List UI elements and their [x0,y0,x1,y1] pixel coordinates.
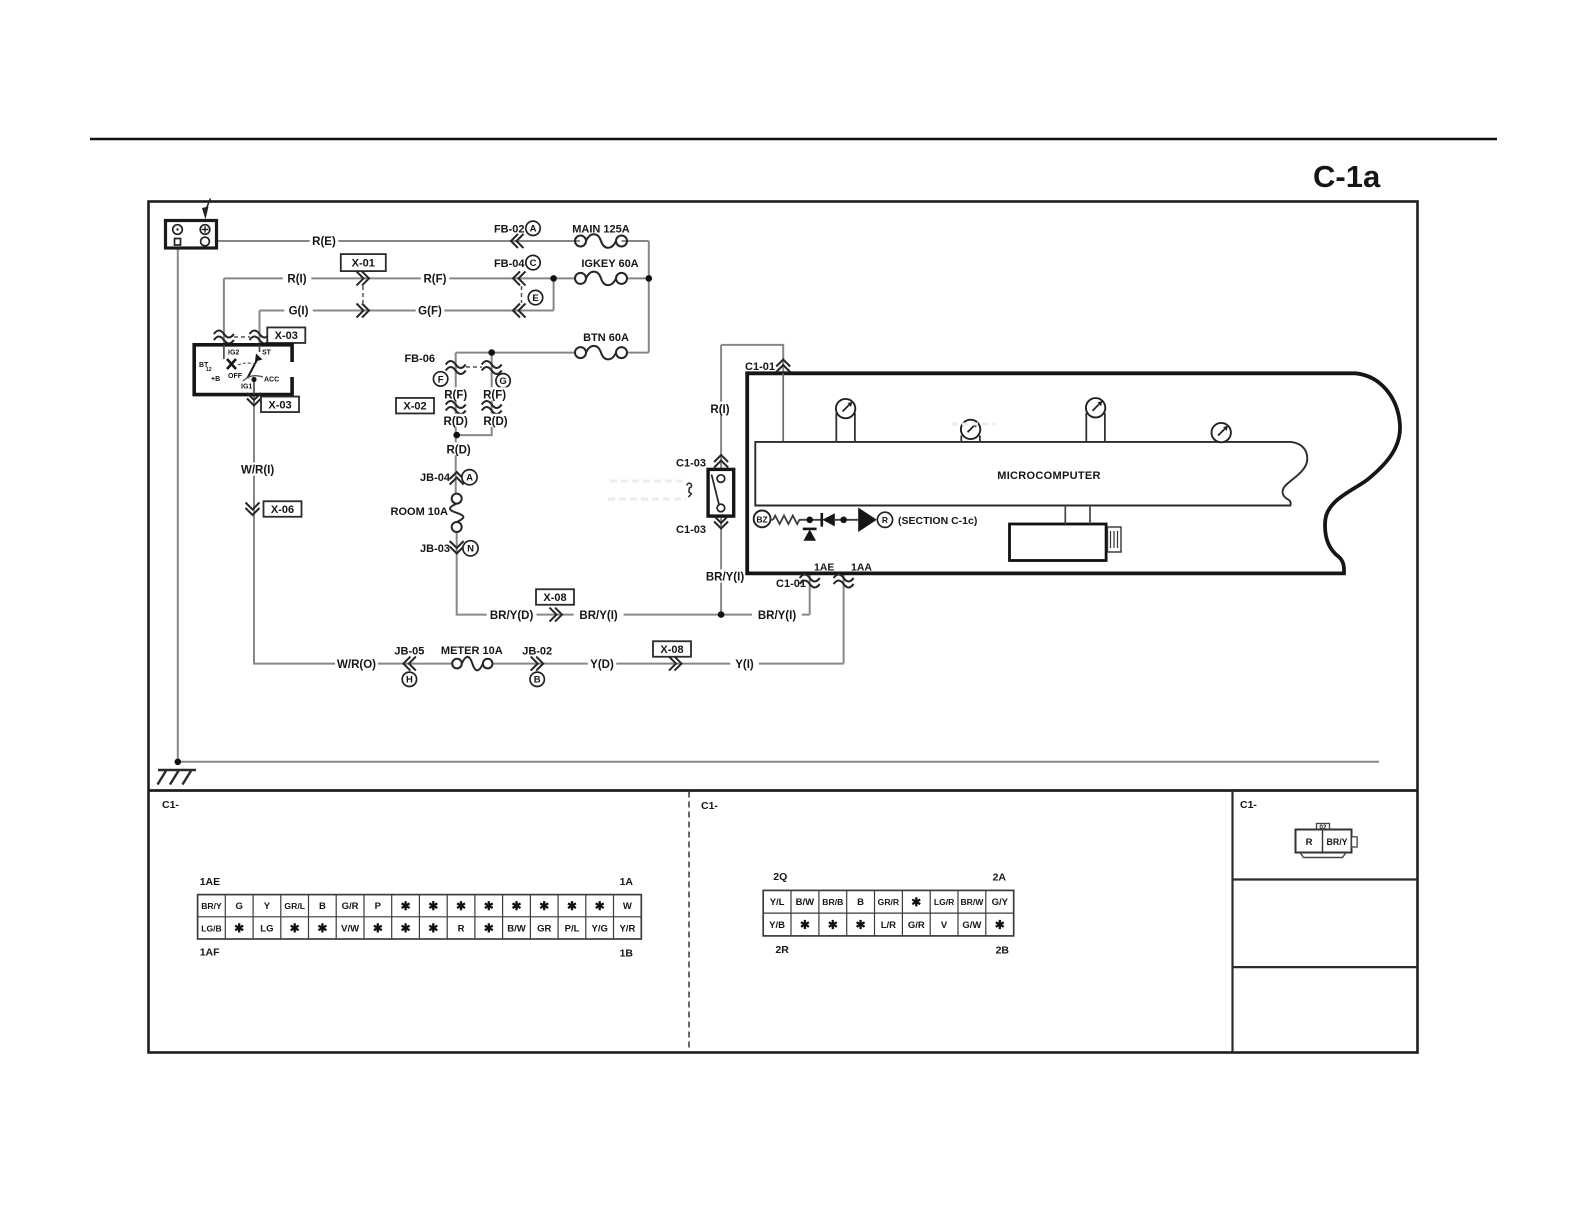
svg-text:R(I): R(I) [287,274,306,286]
svg-text:C-1a: C-1a [1313,159,1381,194]
svg-text:1B: 1B [620,948,634,960]
svg-text:R(D): R(D) [444,416,468,428]
svg-text:Y/L: Y/L [770,897,785,908]
wire G(F) / G(I) row [260,310,554,312]
wire BZ to resistor [771,519,774,521]
label BR/Y(I) vertical [700,569,750,582]
horizontal divider between schematic and connector tables [149,789,1418,792]
wire Y(D)/Y(I) row [492,663,843,665]
label R(D) [444,442,473,455]
lamp L2 tube [961,436,980,442]
svg-text:1AF: 1AF [200,947,220,959]
svg-text:GR/R: GR/R [878,897,900,907]
label R(I) at module [706,402,735,415]
svg-text:JB-02: JB-02 [522,646,552,658]
svg-text:B/W: B/W [796,897,815,908]
svg-text:H: H [406,675,413,686]
svg-text:R(D): R(D) [483,416,507,428]
battery terminal minus [173,225,183,235]
svg-text:12: 12 [206,367,212,373]
wire BTN fuse to bus [627,352,649,354]
wire microcomputer to box a [1064,506,1066,525]
connector C1-02 tab [1317,824,1330,831]
connector FB-06 dashed link [466,366,482,368]
legend row line 2 [1233,966,1418,968]
ignition switch SW1 body [194,345,292,395]
key reminder switch SW2 body [708,469,734,516]
svg-text:1AA: 1AA [851,562,872,574]
svg-text:R: R [1306,837,1313,848]
wire bus vertical node B+ [648,241,650,353]
svg-text:X-03: X-03 [275,330,298,342]
connector FB-06 arcs left [446,361,466,374]
battery pin circle [201,237,210,246]
battery pin square [175,239,181,246]
svg-text:1AE: 1AE [200,876,220,888]
connector C1-02 lip [1300,853,1346,858]
pin B circled JB-02 [530,672,544,686]
svg-text:G/Y: G/Y [992,897,1009,908]
svg-text:JB-03: JB-03 [420,543,450,555]
svg-text:C1-01: C1-01 [776,578,806,590]
wire 1AA riser [843,520,845,664]
pin F circled [433,372,447,386]
pin R circled [877,512,892,527]
svg-text:N: N [467,544,474,555]
connector X-03 arcs over R(I) [214,331,234,344]
wire resistor to node 1AE [799,519,822,521]
connector X-03 label box [267,327,305,343]
pin C circled [526,255,540,269]
label R(D) right branch [481,414,510,427]
lamp L3 tube [1086,413,1105,442]
svg-text:W: W [623,901,632,912]
connector JB-02 chevron [531,657,544,671]
junction node 1AA [840,517,847,524]
connector X-08 chevron on Y [669,657,682,671]
svg-text:GR: GR [537,923,551,934]
svg-text:BR/Y: BR/Y [201,901,222,911]
svg-text:V/W: V/W [341,923,359,934]
svg-text:(SECTION C-1c): (SECTION C-1c) [898,515,977,527]
label R(F) left branch [441,387,470,400]
connector X-01 chevron on G row [357,304,370,318]
key symbol [687,483,692,497]
svg-text:X-08: X-08 [660,644,683,656]
redaction box [1010,524,1107,561]
diode D1 [820,513,823,527]
wire microcomputer to box b [1089,506,1091,525]
connector FB-02 chevron on R(E) [511,234,524,248]
svg-text:V: V [941,920,948,931]
svg-text:BR/Y(I): BR/Y(I) [706,572,745,584]
svg-text:B/W: B/W [507,923,526,934]
label Y(D) [588,657,617,670]
wire FB-06 right branch [457,353,492,436]
svg-text:2R: 2R [775,944,789,956]
connector X-06 label box [264,501,302,517]
wire FB-06 left branch [455,353,457,494]
battery B+ box [166,221,217,249]
svg-text:R(F): R(F) [444,390,467,402]
lamp L1 tube [836,413,855,442]
ignition switch internals [224,345,260,395]
fuse MAIN 125A [575,236,586,247]
svg-text:BR/W: BR/W [960,897,984,907]
ground symbol [158,770,197,785]
connector X-03 lower label box [261,397,299,413]
wire R(D) to ROOM fuse / JB-03 / BR/Y(D) [457,532,810,615]
connector X-03 arcs over G(I) [250,331,270,344]
svg-text:2Q: 2Q [773,871,787,883]
legend row line 1 [1233,878,1418,880]
svg-text:MAIN 125A: MAIN 125A [572,224,630,236]
svg-text:X-02: X-02 [403,401,426,413]
svg-text:C1-03: C1-03 [676,524,706,536]
svg-text:OFF: OFF [228,373,243,380]
svg-text:C1-: C1- [701,800,718,812]
microcomputer block [755,442,1307,506]
wire W/R(I) from ignition switch down [254,395,453,664]
pin A circled [526,221,540,235]
svg-text:MICROCOMPUTER: MICROCOMPUTER [997,470,1101,482]
connector X-06 chevron [246,503,260,516]
label R(E) [310,234,339,247]
pin G circled [496,374,510,388]
svg-text:B: B [534,675,541,686]
svg-text:BR/Y(D): BR/Y(D) [490,610,534,622]
connector X-08 label box [536,589,574,605]
outer diagram frame [149,202,1418,1053]
svg-text:G/R: G/R [908,920,925,931]
connector X-01 chevron on R row [357,271,370,285]
wire key reminder switch to BR/Y(I) junction [720,516,722,615]
lamp L2 [961,420,980,439]
svg-text:2A: 2A [993,871,1007,883]
wire G(I) drop to ignition switch [259,311,261,346]
svg-text:X-06: X-06 [271,504,294,516]
svg-text:A: A [466,473,473,484]
key reminder switch contacts [717,475,725,483]
svg-text:JB-04: JB-04 [420,472,451,484]
svg-text:A: A [530,224,537,235]
fuse BTN 60A [575,347,586,358]
battery terminal plus [200,225,210,235]
svg-text:R(I): R(I) [710,404,729,416]
svg-text:F: F [438,374,444,385]
fuse IGKEY 60A [575,273,586,284]
svg-text:FB-04: FB-04 [494,258,525,270]
module U1 body outline [747,373,1400,573]
svg-text:GR/L: GR/L [284,901,305,911]
svg-text:2B: 2B [996,944,1010,956]
diode D2 arrow to relay [858,508,877,533]
connector X-02 label box [396,398,434,414]
label W/R(O) [335,657,378,670]
fuse METER 10A [452,659,462,669]
section divider solid [1231,791,1233,1053]
svg-text:IG1: IG1 [241,384,252,391]
pin H circled JB-05 [402,672,416,686]
connector JB-03 chevron [450,541,464,554]
small component box [1108,527,1122,552]
washed-out note lines [608,481,686,499]
svg-text:1A: 1A [620,876,634,888]
label BR/Y(I) right [752,608,802,621]
label R(I) [283,271,312,284]
connector C1-02 side lug [1352,837,1358,847]
svg-text:LG/R: LG/R [934,897,955,907]
connector X-02 arcs left [446,401,466,414]
svg-text:C1-01: C1-01 [745,361,775,373]
junction bus-IGKEY [646,275,653,282]
connector X-08 lower label box [653,641,691,657]
svg-text:Y(D): Y(D) [590,659,614,671]
connector FB-06 arcs right [482,361,502,374]
svg-text:R: R [458,923,465,934]
connector FB-04 chevron on G(F) [513,304,526,318]
wire C1-01 entry inside module [782,373,784,442]
pin E circled [528,290,542,304]
svg-text:C1-: C1- [1240,799,1257,811]
svg-text:B: B [319,901,326,912]
svg-text:R(F): R(F) [483,390,506,402]
connector X-01 label box [341,254,386,271]
svg-text:L/R: L/R [881,920,896,931]
svg-text:R: R [882,515,888,525]
svg-text:X-03: X-03 [268,399,291,411]
svg-text:LG/B: LG/B [201,923,222,933]
connector JB-04 chevron [450,472,464,485]
wire ground bus [178,761,1379,763]
svg-text:METER 10A: METER 10A [441,645,503,657]
svg-text:LG: LG [260,923,273,934]
label Y(I) [730,657,759,670]
wire R(I) to key reminder switch [720,345,722,470]
svg-text:BR/B: BR/B [822,897,843,907]
lamp L3 [1086,398,1105,417]
svg-text:BTN 60A: BTN 60A [583,332,629,344]
svg-text:ROOM 10A: ROOM 10A [391,506,449,518]
top rule line [90,138,1497,141]
svg-text:IG2: IG2 [228,350,239,357]
svg-text:C1-03: C1-03 [676,458,706,470]
wire R(I) bridge to module [721,345,783,442]
connector C1-01 wavy on 1AA [834,575,854,588]
junction R(D) [453,432,460,439]
wire R(I) drop to ignition switch [223,278,225,345]
fuse ROOM 10A [452,494,462,504]
label R(F) [421,271,450,284]
svg-text:G(I): G(I) [289,306,309,318]
svg-text:X-01: X-01 [352,258,375,270]
connector C1-03 upper chevron [714,455,728,468]
svg-text:G: G [499,376,506,387]
wire IGKEY fuse to bus [627,277,649,279]
label R(F) right branch [480,387,509,400]
connector X-03 dashed link [234,336,250,338]
svg-text:G: G [236,901,243,912]
svg-text:IGKEY 60A: IGKEY 60A [581,258,638,270]
washed-out note above L2 [952,423,995,426]
wire MAIN fuse to bus [622,240,649,242]
svg-text:G/R: G/R [342,901,359,912]
wire BTN fuse left lead [456,352,575,354]
svg-text:B: B [857,897,864,908]
resistor R1 [773,516,799,524]
svg-text:ST: ST [262,350,272,357]
wire R(F) / R(I) row [224,277,554,279]
label BR/Y(I) mid [574,608,624,621]
svg-text:Y/R: Y/R [619,923,635,934]
wire diode to node 1AA [835,519,858,521]
connector C1-03 lower chevron [714,516,728,529]
connector C1-02 face [1296,830,1352,853]
connector X-01 dashed link [362,286,364,303]
svg-text:FB-02: FB-02 [494,224,525,236]
svg-text:BZ: BZ [756,514,767,524]
connector C1-01 wavy on 1AE [800,575,820,588]
connector C1-01 chevron top [776,360,790,373]
connector X-08 chevron on BR/Y [550,608,563,622]
label W/R(I) [236,462,279,475]
lamp L1 [836,399,855,418]
svg-text:E: E [532,293,538,304]
svg-text:FB-06: FB-06 [404,353,435,365]
svg-text:C: C [530,258,537,269]
svg-text:+B: +B [211,376,220,383]
pin N circled JB-03 [463,541,478,556]
svg-text:Y/B: Y/B [769,920,785,931]
svg-text:Y: Y [264,901,271,912]
svg-text:G(F): G(F) [418,306,442,318]
buzzer BZ [754,511,771,528]
section divider dashed [688,792,690,1052]
label G(F) [416,303,445,316]
junction ground node [175,759,182,766]
junction node 1AE [806,517,813,524]
svg-text:JB-05: JB-05 [394,646,424,658]
diode D3 vertical [803,528,817,531]
svg-text:G/W: G/W [962,920,981,931]
connector X-02 arcs right [482,401,502,414]
wire node R(F) down to G(F) [553,278,555,310]
pin A circled JB-04 [462,470,477,485]
svg-text:1AE: 1AE [814,562,834,574]
wire IGKEY fuse left lead [554,277,575,279]
wire battery negative down [177,248,179,762]
svg-text:R(E): R(E) [312,236,336,248]
connector C1-01 pin table [198,895,642,939]
wire R(E) battery to MAIN fuse [217,240,581,242]
connector X-03 chevron below switch [247,393,261,406]
svg-text:P/L: P/L [565,923,580,934]
svg-text:BR/Y(I): BR/Y(I) [579,610,618,622]
connector FB-04 dashed link [521,286,523,303]
junction BTN-FB06 [488,349,495,356]
svg-text:P: P [375,901,382,912]
connector JB-05 chevron [403,657,416,671]
lamp L4 [1212,423,1231,442]
junction R(F) node [550,275,557,282]
svg-text:BR/Y: BR/Y [1326,837,1347,847]
svg-text:R(D): R(D) [446,444,470,456]
svg-text:C1-: C1- [162,799,179,811]
label G(I) [284,303,313,316]
svg-text:ACC: ACC [264,377,279,384]
svg-text:Y/G: Y/G [592,923,608,934]
svg-text:Y(I): Y(I) [735,659,754,671]
svg-text:W/R(O): W/R(O) [337,659,376,671]
wire 1AE riser [809,520,811,615]
svg-text:R(F): R(F) [424,274,447,286]
label BR/Y(D) [487,608,537,621]
svg-text:W/R(I): W/R(I) [241,465,274,477]
connector FB-04 chevron on R(F) [513,271,526,285]
connector C1-03 pin table [763,890,1014,936]
svg-text:BR/Y(I): BR/Y(I) [758,610,797,622]
junction BR/Y node [718,611,725,618]
battery pointer arrow [207,199,211,209]
label R(D) left branch [441,414,470,427]
svg-text:X-08: X-08 [543,592,566,604]
